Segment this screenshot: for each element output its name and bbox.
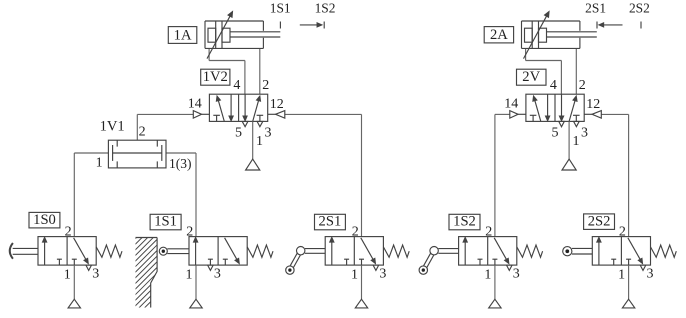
svg-text:1S2: 1S2	[315, 1, 336, 16]
svg-text:3: 3	[265, 126, 272, 141]
svg-text:1S1: 1S1	[270, 1, 291, 16]
svg-text:4: 4	[550, 78, 557, 93]
svg-text:1S0: 1S0	[33, 212, 56, 228]
svg-text:2A: 2A	[490, 27, 508, 43]
svg-text:1: 1	[256, 134, 263, 149]
svg-text:2S2: 2S2	[629, 1, 650, 16]
svg-text:1V1: 1V1	[100, 118, 125, 134]
svg-text:2: 2	[579, 78, 586, 93]
svg-text:12: 12	[586, 97, 600, 112]
svg-text:2S1: 2S1	[585, 1, 606, 16]
svg-text:3: 3	[513, 267, 520, 282]
svg-text:1: 1	[351, 268, 358, 283]
svg-text:1S2: 1S2	[453, 214, 476, 230]
svg-text:2S2: 2S2	[588, 213, 611, 229]
svg-text:14: 14	[188, 97, 202, 112]
svg-text:1: 1	[186, 268, 193, 283]
svg-text:1S1: 1S1	[154, 214, 177, 230]
svg-text:3: 3	[647, 267, 654, 282]
svg-text:1A: 1A	[174, 27, 192, 43]
svg-text:2: 2	[485, 225, 492, 240]
svg-text:3: 3	[92, 267, 99, 282]
svg-text:5: 5	[552, 126, 559, 141]
svg-text:2: 2	[65, 225, 72, 240]
svg-text:2: 2	[352, 225, 359, 240]
svg-text:2S1: 2S1	[319, 214, 342, 230]
svg-text:1: 1	[573, 134, 580, 149]
svg-text:14: 14	[504, 97, 518, 112]
svg-text:12: 12	[270, 97, 284, 112]
svg-text:2: 2	[186, 225, 193, 240]
svg-text:2: 2	[139, 125, 146, 140]
svg-text:1V2: 1V2	[203, 69, 228, 85]
svg-text:1: 1	[96, 155, 103, 170]
svg-text:3: 3	[214, 267, 221, 282]
svg-text:1(3): 1(3)	[169, 156, 192, 171]
svg-text:2: 2	[262, 78, 269, 93]
svg-text:3: 3	[581, 126, 588, 141]
svg-text:1: 1	[64, 268, 71, 283]
svg-text:1: 1	[484, 268, 491, 283]
svg-text:5: 5	[235, 126, 242, 141]
svg-text:2: 2	[619, 225, 626, 240]
svg-text:1: 1	[618, 268, 625, 283]
svg-text:3: 3	[379, 267, 386, 282]
svg-text:4: 4	[233, 78, 240, 93]
svg-text:2V: 2V	[522, 69, 540, 85]
